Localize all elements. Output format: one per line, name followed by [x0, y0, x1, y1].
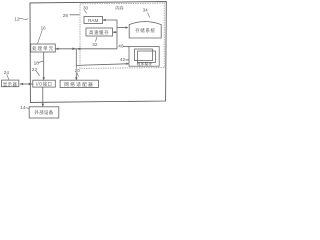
svg-text:处理单元: 处理单元 — [32, 45, 54, 52]
svg-text:28: 28 — [63, 13, 69, 18]
svg-text:32: 32 — [92, 42, 98, 47]
svg-text:内存: 内存 — [115, 4, 123, 11]
svg-text:外部设备: 外部设备 — [34, 109, 53, 116]
svg-text:22: 22 — [32, 67, 38, 72]
svg-text:14: 14 — [20, 105, 26, 110]
svg-text:20: 20 — [75, 68, 81, 73]
svg-text:12: 12 — [14, 16, 20, 21]
svg-text:RAM: RAM — [88, 18, 98, 23]
svg-text:16: 16 — [41, 25, 47, 30]
svg-text:存储系统: 存储系统 — [135, 27, 155, 34]
svg-text:程序模块: 程序模块 — [137, 61, 153, 66]
svg-text:24: 24 — [4, 70, 10, 75]
svg-text:高速缓存: 高速缓存 — [89, 29, 109, 36]
svg-text:网络适配器: 网络适配器 — [64, 81, 94, 88]
svg-text:42: 42 — [120, 57, 126, 62]
svg-text:I/O接口: I/O接口 — [36, 81, 52, 88]
svg-text:30: 30 — [83, 6, 89, 11]
svg-text:34: 34 — [143, 8, 149, 13]
svg-text:40: 40 — [118, 44, 124, 49]
svg-text:18: 18 — [34, 60, 40, 65]
